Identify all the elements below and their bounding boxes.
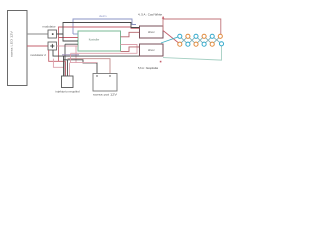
teal wire driver 2 to strip start (161, 36, 180, 43)
injector feed wire 4 pink (69, 63, 71, 76)
pink wire under controller (71, 45, 138, 54)
svg-text:sursa pot 12V: sursa pot 12V (93, 93, 117, 97)
teal return wire (163, 46, 222, 60)
pink wire M2 to controller (57, 45, 79, 47)
svg-text:sursa LED 12V: sursa LED 12V (10, 31, 14, 57)
svg-text:injektoriu neopiksl: injektoriu neopiksl (56, 90, 80, 94)
LED O2 orange string (186, 34, 190, 38)
svg-text:driver: driver (148, 48, 155, 52)
blue pin into controller (73, 33, 78, 35)
M1 indicator dot (52, 33, 54, 35)
wire PSU to modulator 2 (27, 45, 48, 47)
red wire top rail (59, 27, 140, 61)
LED C3 cyan string (194, 34, 198, 38)
LED C5 cyan string (210, 34, 214, 38)
PSU2 box (93, 74, 117, 92)
svg-text:driver: driver (148, 30, 155, 34)
svg-text:4, 5 A : Cool White: 4, 5 A : Cool White (138, 13, 163, 17)
injector feed wire 2 red (65, 61, 67, 76)
red wire M2 bottom to junction (49, 50, 66, 61)
red supply loop to strip end (163, 19, 221, 34)
injector box (62, 76, 74, 88)
modulator M1 (48, 30, 57, 38)
injector feed wire 1 dark (63, 56, 65, 76)
svg-text:modulator 2: modulator 2 (30, 53, 46, 57)
LED C1 cyan string (178, 34, 182, 38)
PSU2 terminal A (96, 75, 97, 76)
LED O3 orange string (194, 42, 198, 46)
dark wire M2 bottom rail (53, 50, 140, 56)
LED O6 orange string (218, 34, 222, 38)
plus symbol in M2 (50, 44, 54, 48)
dark pin into controller (63, 34, 78, 41)
LED C4 cyan string (202, 42, 206, 46)
purple wire segment (62, 54, 79, 56)
PSU2 terminal B (109, 75, 110, 76)
driver D2 box (140, 44, 164, 56)
LED string 2 connectors (orange chain) (180, 36, 221, 44)
LED O4 orange string (202, 34, 206, 38)
LED string 1 connectors (cyan chain) (180, 36, 222, 44)
controller box U1 (78, 31, 121, 51)
red wire controller to driver 1 (121, 32, 140, 37)
pink hook wire below M2 (53, 59, 65, 68)
red arrow mark (162, 16, 165, 19)
red mark (160, 61, 162, 63)
pink stub into driver 2 (137, 46, 140, 48)
injector feed wire 3 dark (67, 60, 69, 76)
dark pin into controller low (65, 43, 78, 45)
svg-text:modulator: modulator (42, 24, 55, 28)
dark wire M1 up-rail to driver 1 (57, 23, 140, 35)
LED O1 orange string (178, 42, 182, 46)
red wire driver 1 to strip start (163, 31, 180, 44)
LED C6 cyan string (219, 42, 223, 46)
blue wire loop M1 to driver 1 (73, 19, 136, 34)
pink wire junction to PSU2 box (68, 59, 111, 74)
driver D1 box (140, 26, 164, 38)
LED C2 cyan string (186, 42, 190, 46)
dark wire down to injector (64, 44, 66, 76)
LED O5 orange string (210, 42, 214, 46)
red wire controller to driver 2 (121, 47, 140, 52)
wire PSU to modulator 1 (27, 33, 48, 35)
pink drop from M2 output (75, 46, 77, 63)
svg-text:5,6 A : Neopiksliai: 5,6 A : Neopiksliai (138, 66, 158, 70)
dark wire junction to PSU2 box (63, 60, 97, 74)
pink drop wire (71, 54, 98, 63)
power source box PSU (8, 11, 28, 86)
red pin into controller (59, 37, 79, 39)
svg-text:Kontroller: Kontroller (89, 38, 100, 42)
svg-text:deim: deim (99, 15, 107, 18)
modulator M2 (48, 42, 57, 50)
